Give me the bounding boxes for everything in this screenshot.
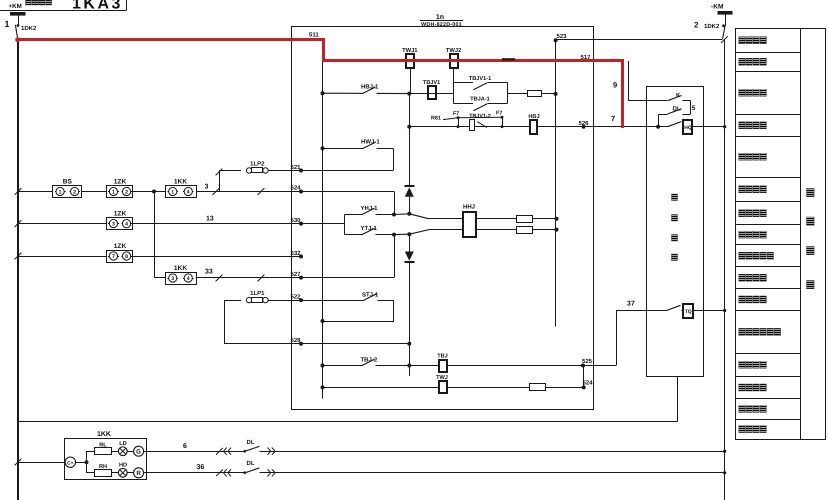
svg-text:STJ-1: STJ-1 [362,292,379,299]
closing coil HQ [683,120,692,134]
svg-text:524: 524 [583,380,594,387]
table column label (vertical) [807,189,815,197]
svg-text:1DK2: 1DK2 [704,23,720,30]
+KM bus bar [10,12,26,16]
wire row4 stub [154,277,165,279]
fuse-switch BS [53,186,82,198]
wire to TQ row [583,365,616,367]
svg-text:LD: LD [119,441,126,447]
coil TBJ [439,360,447,372]
node junction x=154 [152,190,156,194]
wire 521 link [393,148,395,170]
inner vertical from red corner x=322.5 [322,61,324,399]
svg-text:+KM: +KM [9,3,22,10]
return wire y=421.3 to left bus [18,421,678,423]
contact TBJ-2 row y=365.8 [321,364,325,368]
svg-text:-KM: -KM [711,4,724,11]
wire 523 to 1DK2 right [556,39,723,41]
resistor RH [87,472,95,474]
stub TWJ2 down [453,69,455,83]
svg-text:2: 2 [73,190,76,196]
coil TWJ2 on red bus [450,54,458,68]
svg-text:1LP1: 1LP1 [250,290,265,297]
svg-text:526: 526 [579,120,590,127]
svg-text:1: 1 [59,190,62,196]
svg-text:F7: F7 [496,111,502,117]
svg-text:R: R [136,470,141,477]
svg-text:3: 3 [205,184,209,191]
mechanism box [647,87,704,377]
svg-text:RH: RH [99,464,107,470]
lamp wire 36 to DL and -KM bus [147,472,725,474]
svg-text:7: 7 [112,254,115,260]
svg-text:TQ: TQ [685,309,692,315]
switch 1ZK pins 3-4 [107,218,133,230]
svg-text:TWJ: TWJ [436,375,448,381]
stub TWJ1 down [410,69,412,94]
resistor R top [517,216,533,223]
svg-text:1ZK: 1ZK [114,243,127,250]
red lamp HD [111,472,118,474]
contact DL upper [658,114,667,116]
svg-text:1: 1 [171,190,174,196]
control switch 1KK pins 1-4 [166,186,197,198]
svg-text:525: 525 [582,358,593,365]
wire 1LP2 row y=170.5 [219,170,241,172]
wire row3 y=256 [15,253,22,260]
green indicator G [134,446,144,456]
svg-text:1ZK: 1ZK [114,178,127,185]
switch 1ZK pins 7-8 [107,251,133,263]
svg-text:TWJ1: TWJ1 [402,48,418,54]
svg-text:1: 1 [112,190,115,196]
title block (top-left, partially cropped) [0,10,127,12]
diode column lower (D2) [409,234,411,251]
svg-text:33: 33 [205,269,213,276]
junction at diode column [407,92,411,96]
feed from bus to C+ [15,459,22,466]
svg-text:517: 517 [581,54,592,61]
diode column upper (D1) [409,94,411,127]
contact TBJV1-2 [470,120,475,131]
resistor R bottom [517,227,533,234]
svg-text:DL: DL [247,460,255,467]
vertical label (mech) [672,194,678,201]
wire 13 to 530 [133,223,301,225]
contact HWJ-1 row y=148.4 [321,146,325,150]
pressure plate 1LP2 [246,168,251,173]
wire 528 row inside [301,343,409,345]
coil TBJV1 [428,86,436,99]
resistor RL [87,451,95,453]
wire to 532 [133,256,301,258]
HHJ bottom line [409,230,429,235]
svg-text:C+: C+ [67,460,73,466]
svg-text:1KA3: 1KA3 [72,0,123,13]
svg-text:3: 3 [171,276,174,282]
svg-text:DL: DL [247,439,255,446]
link 525-524 [583,366,585,388]
svg-text:1KK: 1KK [174,265,187,272]
wire to 528 [225,343,302,345]
svg-text:4: 4 [187,190,190,196]
svg-text:1KK: 1KK [174,178,187,185]
closing-coil row y=126.7 (wire 7/526) [409,126,724,128]
coil TWJ1 on red bus [406,54,414,68]
svg-text:1n: 1n [436,14,444,21]
control switch 1KK pins 3-4 [166,273,197,285]
contact YHJ-1 [344,214,394,216]
wire 523 vertical [555,40,557,326]
svg-text:37: 37 [627,301,635,308]
svg-text:DL: DL [673,106,681,113]
svg-text:2: 2 [125,190,128,196]
svg-text:1ZK: 1ZK [114,211,127,218]
wire row2 y=223.6 [15,220,22,227]
svg-text:2: 2 [694,21,699,30]
lamp wire 6 to DL and -KM bus [147,451,725,453]
lamp box 1KK [65,439,147,480]
HHJ top line [409,214,429,219]
svg-text:4: 4 [187,276,190,282]
svg-text:1: 1 [5,19,10,29]
contact STJ-1 row y=300 [301,300,394,302]
svg-text:K: K [676,92,681,99]
wire 33 to 527 [196,277,301,279]
svg-text:8: 8 [125,254,128,260]
svg-text:1LP2: 1LP2 [250,160,265,167]
switch 1ZK pins 1-2 [107,186,133,198]
svg-text:HD: HD [119,462,127,468]
svg-text:HQ: HQ [684,125,692,131]
svg-text:4: 4 [125,222,128,228]
right bus vertical [724,39,726,500]
left bus - vertical [17,40,19,500]
red supply wire (highlighted path) [18,40,623,129]
coil HBJ [530,120,537,134]
svg-text:1KK: 1KK [97,431,111,438]
wire to 521 [268,170,301,172]
green lamp LD [111,451,118,453]
svg-text:R81: R81 [431,115,441,121]
svg-text:G: G [136,449,141,456]
branch down to row4 [154,192,156,278]
main box 1n [292,27,594,410]
anti-pump row: contact HBJ-1 y=93.2 [321,91,325,95]
disconnect switch 1DK2 (left) [17,24,20,27]
red indicator R [134,468,144,478]
wire 524 down to YHJ [301,191,394,193]
resistor on TWJ row [530,384,546,391]
svg-text:TBJ: TBJ [437,353,448,359]
row exit to resistor [507,93,555,95]
svg-text:13: 13 [206,216,214,223]
mechanism return drop [677,377,679,422]
black drop from red corner to K row [628,61,630,101]
svg-text:TBJA-1: TBJA-1 [470,97,490,103]
wire 530 to bar [301,223,344,225]
svg-text:36: 36 [197,464,205,471]
branch to 1LP2 [219,171,221,192]
trip coil TQ [683,304,693,318]
svg-text:TBJV1: TBJV1 [423,80,440,86]
function table (right) [736,29,826,440]
svg-text:F7: F7 [453,111,459,117]
wire number 526 [582,125,586,129]
svg-text:511: 511 [309,32,319,39]
wire 3 segment [196,191,301,193]
svg-text:HHJ: HHJ [463,204,475,211]
wire to 1KK [133,191,165,193]
trip row 37 / TQ [616,310,725,312]
common point circle [65,457,75,467]
junctions to HHJ lines [394,213,409,216]
disconnect switch 1DK2 (right) [723,26,725,39]
svg-text:3: 3 [112,222,115,228]
contact YTJ-1 [344,234,394,236]
parallel contacts TBJV1-1 / TBJA-1 box [453,83,455,104]
svg-text:HBJ: HBJ [528,114,539,120]
YHJ/YTJ parallel bar [344,215,346,235]
coil TWJ row y=387.4 [321,385,325,389]
coil HHJ [463,212,476,237]
svg-text:BS: BS [63,178,73,185]
contact K [668,99,683,102]
wire to parallel contacts [409,93,453,95]
svg-text:6: 6 [183,443,187,450]
wire 5 link [690,101,692,114]
wire 527 up to YTJ [301,277,394,279]
svg-text:5: 5 [692,105,696,112]
svg-text:RL: RL [99,442,107,448]
pressure plate 1LP1 branch 522-528 [224,300,226,344]
wire [82,191,107,193]
wire row1 y=191.5 from bus [15,188,22,195]
svg-text:1DK2: 1DK2 [21,25,37,32]
svg-text:TBJV1-2: TBJV1-2 [469,113,491,119]
contact DL lower on closing row [668,125,683,128]
svg-text:523: 523 [557,33,568,40]
svg-text:7: 7 [611,114,615,123]
svg-text:WDH-822D-001: WDH-822D-001 [421,22,462,28]
svg-text:9: 9 [613,81,617,90]
svg-text:TBJV1-1: TBJV1-1 [469,76,491,82]
svg-text:TWJ2: TWJ2 [446,47,461,54]
